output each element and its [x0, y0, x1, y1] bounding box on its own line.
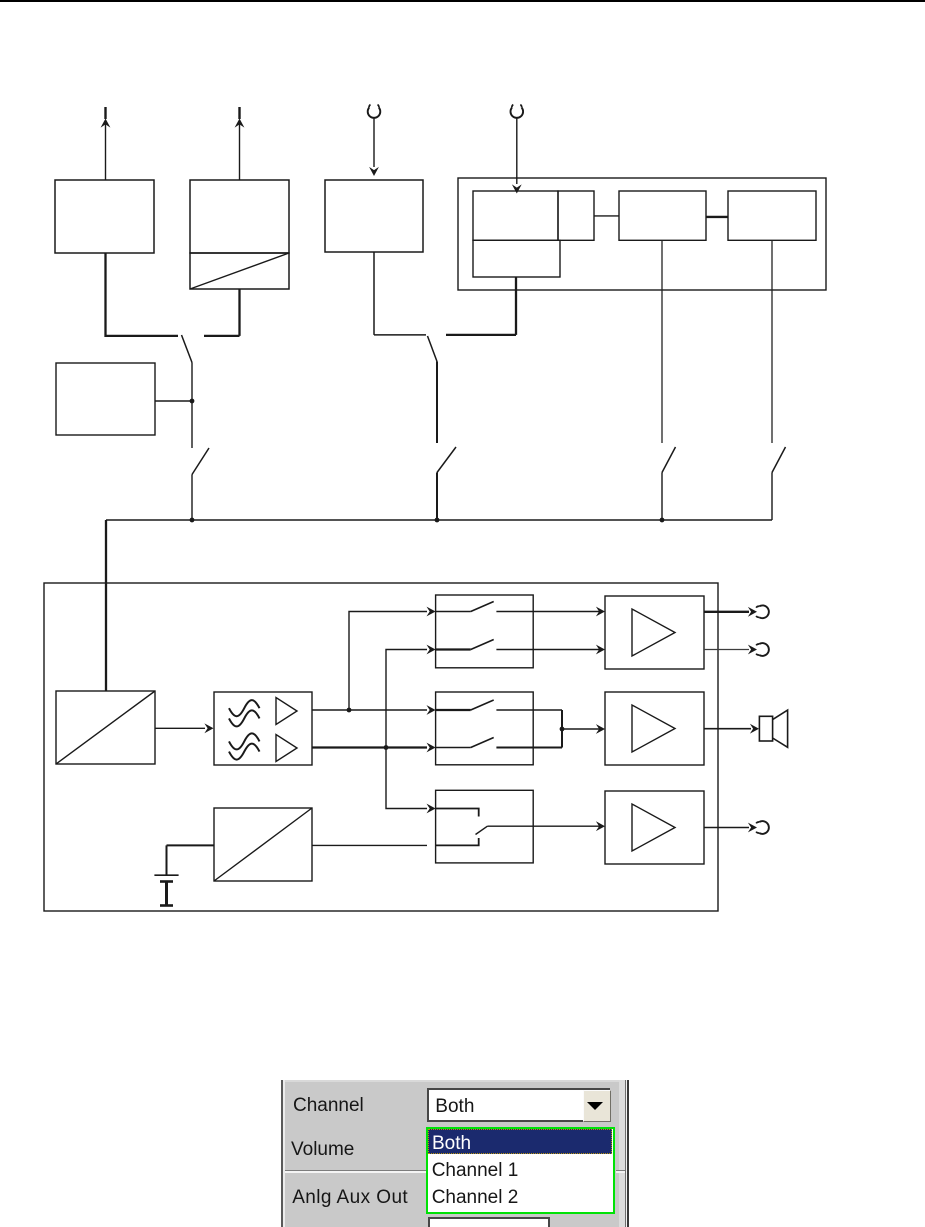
box U1 analog output amplifier 1	[55, 180, 154, 253]
switch S6 blade (channel 2 enable)	[437, 447, 456, 473]
node N5 junction dot	[347, 708, 352, 713]
wire W24: headphone out ch2	[704, 645, 757, 655]
box U2 analog output amplifier 2 with level adjust	[190, 180, 289, 289]
wire W3: S1 pole down	[191, 363, 193, 449]
item Channel 1	[432, 1161, 519, 1180]
switch S9b blade row2	[436, 640, 605, 655]
wire W14: U5d output down	[661, 240, 663, 443]
speaker LS1 symbol	[759, 710, 787, 747]
switch S7 blade	[662, 447, 676, 473]
wire W6: J3 down into U4 with arrow	[369, 118, 379, 176]
combobox field	[427, 1088, 610, 1123]
wire W26: speaker amp out	[704, 724, 759, 734]
amplifier triangle T5	[632, 804, 675, 851]
panel top highlight	[281, 1080, 629, 1082]
wire W23: headphone out ch1 (thick)	[704, 607, 757, 617]
amplifier triangle T3	[632, 609, 675, 656]
label Channel	[293, 1096, 364, 1115]
wire W27: S11 pole to aux amp	[487, 821, 605, 831]
node N3 junction dot	[435, 518, 440, 523]
amplifier triangle T1	[276, 698, 297, 725]
amplifier triangle T2	[276, 735, 297, 762]
groove separator right of list	[616, 1170, 625, 1172]
wire W17: S8 pole to bus	[771, 473, 773, 521]
box U5d processing cell	[619, 191, 706, 240]
top crop edge	[0, 0, 925, 2]
box U6 monitor output block (outer)	[44, 583, 718, 911]
dropdown list with green frame	[426, 1127, 615, 1215]
connector J5 headphone ch1 (cup)	[756, 605, 769, 618]
box U11 aux amplifier	[605, 791, 704, 864]
box U7 monitor DAC (rect with diagonal)	[56, 691, 155, 764]
wire W19: bus down to monitor DAC (thick)	[105, 520, 107, 691]
box U4 analog input monitor	[325, 180, 423, 252]
node N4 junction dot	[660, 518, 665, 523]
switch S10a blade row1	[436, 700, 562, 710]
wire W12: S2 pole down (thick)	[436, 362, 438, 444]
box U5a digital receiver cell	[473, 191, 558, 240]
wire W7: U4 output to switch S2 left contact	[374, 252, 426, 335]
connector J6 headphone ch2 (cup)	[756, 643, 769, 656]
node N1 junction dot	[190, 399, 195, 404]
wire W30: source to U12 input (thick)	[167, 845, 215, 875]
wire W18: monitor bus	[106, 519, 772, 521]
switch S10b blade row2	[436, 738, 562, 748]
input connector J3 (cup)	[368, 105, 381, 118]
box U8 filter / preamp block	[214, 692, 312, 765]
wire W9: U5b to U5d	[594, 215, 619, 217]
wire W25: switch outputs joined to speaker amp	[562, 710, 605, 748]
label Anlg Aux Out	[292, 1188, 408, 1207]
battery/reference symbol B1	[154, 875, 178, 905]
switch S5 blade (channel 1 enable)	[192, 448, 209, 475]
panel right border	[619, 1080, 625, 1227]
wire W11: U5c output to switch S2 right contact (thick)	[446, 277, 516, 335]
wire W21: filter ch1 out to headphone switch row1	[312, 607, 436, 715]
box S9 headphone channel switch	[436, 595, 534, 668]
output connector arrow A2 (up)	[235, 107, 245, 180]
UI screenshot panel	[281, 1080, 629, 1227]
combo drop button	[583, 1090, 611, 1122]
connector J7 aux out (cup)	[756, 821, 769, 834]
node N2 junction dot	[190, 518, 195, 523]
wire W10: U5d to U5e (thick)	[706, 216, 728, 218]
filter symbol F1 (channel 1 waves)	[229, 700, 260, 726]
box U3 generator monitor source	[56, 363, 155, 435]
wire W5: S5 pole to bus	[191, 475, 193, 521]
switch S9a blade row1	[436, 602, 605, 617]
input connector J4 (cup)	[510, 105, 523, 118]
switch S8 blade	[772, 447, 786, 473]
wire W15: S7 pole to bus	[661, 473, 663, 521]
wire W16: U5e output down	[771, 240, 773, 443]
box U5c lower cell	[473, 240, 560, 277]
box U9 headphone amplifier	[605, 596, 704, 669]
output connector arrow A1 (up)	[101, 107, 111, 180]
item Channel 2	[432, 1188, 519, 1207]
filter symbol F2 (channel 2 waves)	[229, 733, 260, 759]
switch S2 blade (monitor source select)	[428, 336, 438, 362]
wire W28: aux amp out	[704, 823, 757, 833]
next row field (cut off)	[428, 1217, 550, 1227]
switch S11 contacts	[436, 809, 479, 846]
box U10 speaker amplifier	[605, 692, 704, 765]
wire W2: U2 output to switch S1 right contact	[204, 289, 240, 336]
amplifier triangle T4	[632, 705, 675, 752]
selected item Both	[428, 1129, 612, 1154]
node N7 junction dot	[560, 727, 565, 732]
label Volume	[291, 1140, 354, 1159]
wire W29: U12 out to S11 row2	[312, 844, 427, 846]
box U5b small cell	[558, 191, 594, 240]
wire W22: filter ch2 out (thick) with branches	[312, 645, 436, 814]
switch S11 blade	[476, 826, 488, 834]
wire W13: S6 pole to bus (thick)	[436, 473, 438, 521]
box S11 aux output changeover switch	[436, 790, 534, 863]
switch S1 blade (analog source select)	[182, 335, 193, 363]
wire W4: U3 to node N1	[155, 400, 192, 402]
box S10 speaker channel switch	[436, 692, 534, 765]
box U5e processing cell	[728, 191, 816, 240]
wire W8: J4 down into U5a with arrow	[512, 118, 522, 194]
wire W20: U7 to filter U8 with arrow	[155, 723, 214, 733]
box U5 digital audio interface block (outer)	[458, 178, 826, 290]
groove separator left of list	[285, 1170, 427, 1172]
box U12 aux DAC (rect with diagonal)	[214, 808, 312, 881]
panel left border	[281, 1080, 283, 1227]
node N6 junction dot	[384, 745, 389, 750]
wire W1: U1 output to switch S1 left contact	[106, 253, 179, 336]
